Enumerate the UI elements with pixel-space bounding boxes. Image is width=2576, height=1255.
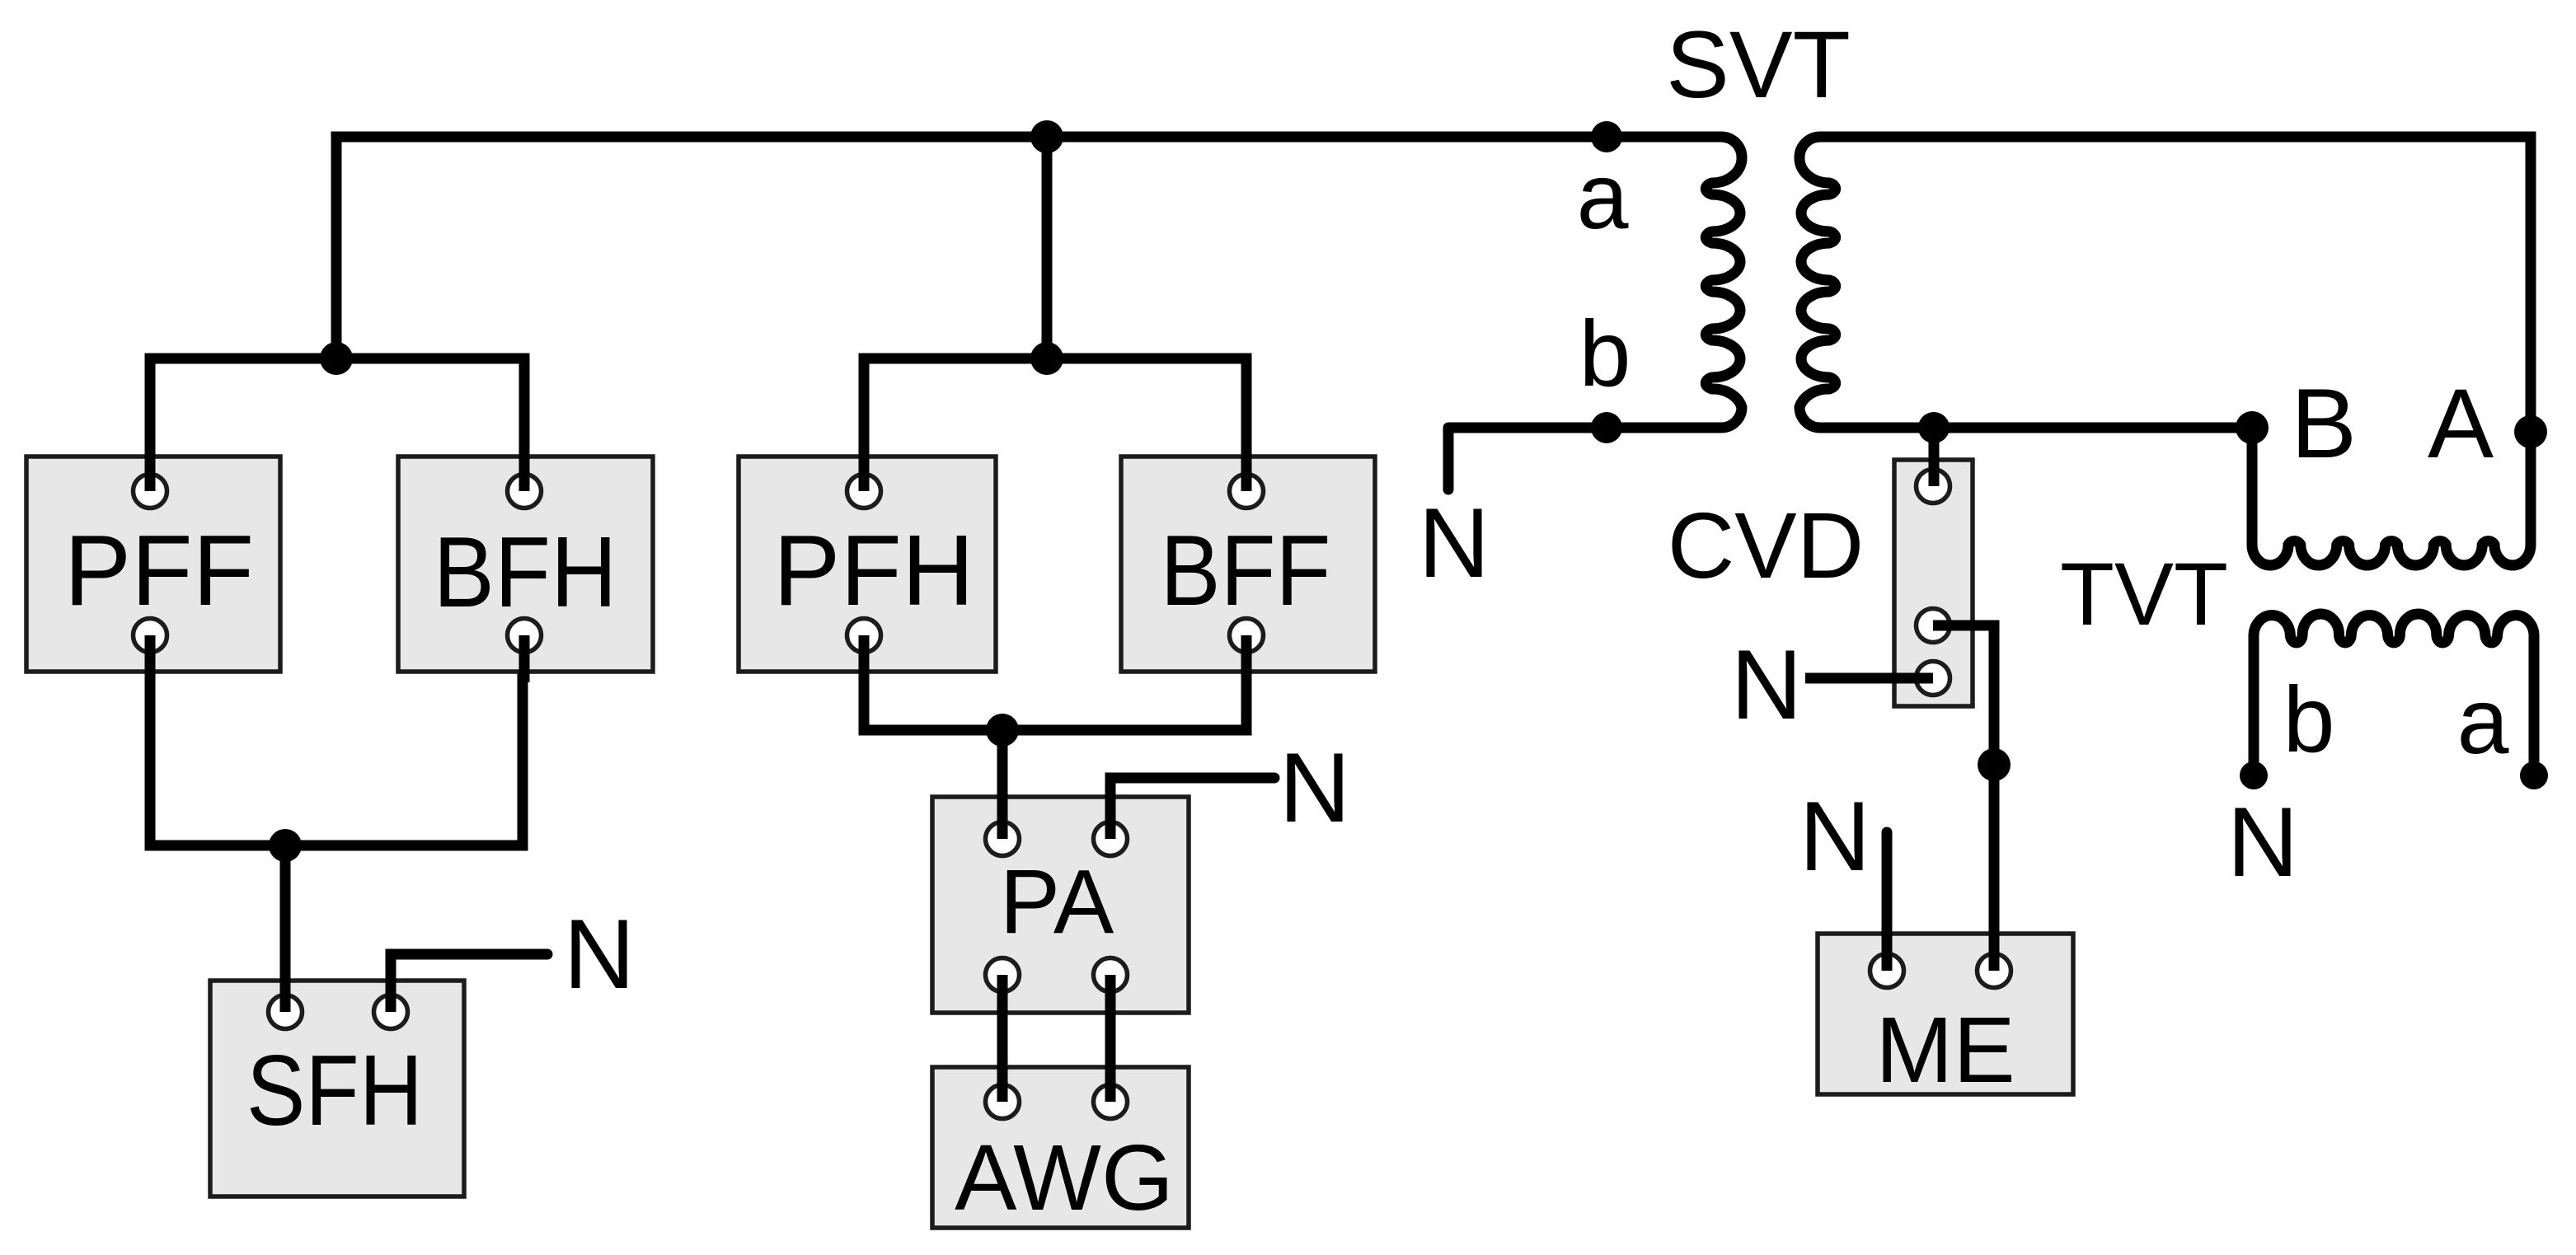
terminals PFH bbox=[847, 475, 881, 508]
svg-text:BFF: BFF bbox=[1161, 514, 1331, 626]
svg-text:b: b bbox=[2283, 667, 2335, 771]
wire N to SFH bbox=[391, 954, 547, 1012]
svg-text:BFH: BFH bbox=[434, 516, 617, 628]
box SFH bbox=[210, 981, 464, 1196]
box BFH bbox=[398, 457, 653, 672]
terminals CVD bbox=[1917, 470, 1950, 503]
wire N stub at SVT primary bbox=[1443, 428, 1454, 489]
svg-text:b: b bbox=[1579, 302, 1631, 405]
box PFH bbox=[739, 457, 996, 672]
wire PA left to AWG left bbox=[997, 975, 1008, 1102]
wire PFF-BFH bottom link bbox=[150, 635, 523, 845]
svg-text:SVT: SVT bbox=[1666, 12, 1851, 118]
node junction on bus (middle) bbox=[1030, 120, 1063, 153]
terminals AWG bbox=[986, 1085, 1020, 1119]
node a terminal TVT bbox=[2520, 761, 2548, 789]
wire N to CVD bbox=[1805, 673, 1933, 684]
wire secondary bottom to node B bbox=[1820, 423, 2252, 433]
terminals ME bbox=[1870, 954, 1904, 988]
wire drop to PA bbox=[997, 730, 1008, 839]
wire N to PA bbox=[1110, 778, 1274, 839]
svg-text:PA: PA bbox=[1000, 851, 1114, 953]
node b at SVT primary bottom bbox=[1591, 412, 1622, 443]
box ME bbox=[1818, 934, 2073, 1102]
terminals BFF bbox=[1230, 475, 1264, 508]
svg-text:ME: ME bbox=[1875, 998, 2015, 1102]
svg-text:N: N bbox=[1731, 630, 1803, 740]
svg-text:a: a bbox=[1577, 144, 1629, 248]
terminals PA bbox=[986, 822, 1020, 856]
wire secondary top to A drop bbox=[1820, 137, 2531, 545]
box BFF bbox=[1121, 457, 1375, 672]
svg-text:AWG: AWG bbox=[955, 1126, 1174, 1229]
wire drop to SFH bbox=[280, 845, 291, 1012]
terminals PFF bbox=[134, 470, 2011, 1119]
svg-text:PFF: PFF bbox=[64, 514, 254, 626]
wire middle branch to PFH and BFF bbox=[864, 358, 1246, 491]
svg-text:A: A bbox=[2428, 368, 2494, 479]
node junction left bottom bbox=[269, 829, 302, 862]
node a at SVT primary top bbox=[1591, 121, 1622, 152]
transformer TVT primary winding bbox=[2252, 541, 2531, 565]
svg-text:N: N bbox=[1799, 781, 1871, 892]
wire CVD tap to ME bbox=[1933, 625, 1994, 971]
svg-text:B: B bbox=[2291, 368, 2357, 479]
node junction middle branch bbox=[1030, 342, 1063, 375]
wire PFH-BFF bottom link bbox=[864, 635, 1246, 730]
svg-text:CVD: CVD bbox=[1668, 494, 1865, 597]
node B bbox=[2236, 411, 2269, 444]
svg-text:PFH: PFH bbox=[773, 514, 974, 626]
transformer TVT secondary winding bbox=[2254, 614, 2534, 775]
node junction middle bottom bbox=[986, 714, 1019, 747]
terminals BFH bbox=[508, 475, 542, 508]
node junction above CVD bbox=[1918, 412, 1950, 443]
svg-text:N: N bbox=[1279, 733, 1351, 843]
wire node B drop to TVT bbox=[2247, 428, 2258, 545]
node junction CVD-ME bbox=[1978, 748, 2011, 781]
wire N stub at ME bbox=[1882, 832, 1893, 971]
transformer SVT secondary winding bbox=[1799, 137, 1836, 428]
transformer SVT primary winding with bottom wire bbox=[1448, 137, 2534, 971]
svg-text:TVT: TVT bbox=[2060, 544, 2228, 644]
svg-text:N: N bbox=[2227, 787, 2299, 897]
wire junction drop to CVD bbox=[1929, 428, 1940, 486]
box PA bbox=[932, 797, 1189, 1013]
wire middle drop from bus bbox=[1042, 137, 1053, 358]
node junction left branch bbox=[320, 342, 353, 375]
box CVD bbox=[1894, 460, 1973, 706]
wire left branch to PFF and BFH bbox=[150, 358, 524, 491]
terminals SFH bbox=[269, 995, 303, 1029]
box AWG bbox=[932, 1067, 1189, 1229]
terminal lead-ins drawn over rings bbox=[150, 447, 1994, 1102]
svg-text:N: N bbox=[564, 899, 636, 1009]
node A bbox=[2514, 415, 2547, 448]
svg-text:N: N bbox=[1419, 488, 1490, 598]
node b terminal TVT bbox=[2240, 761, 2268, 789]
svg-text:a: a bbox=[2457, 669, 2509, 773]
svg-text:SFH: SFH bbox=[246, 1034, 423, 1146]
wire PA right to AWG right bbox=[1105, 975, 1116, 1102]
wire top bus with left drop bbox=[336, 137, 1721, 363]
box PFF bbox=[26, 457, 280, 672]
